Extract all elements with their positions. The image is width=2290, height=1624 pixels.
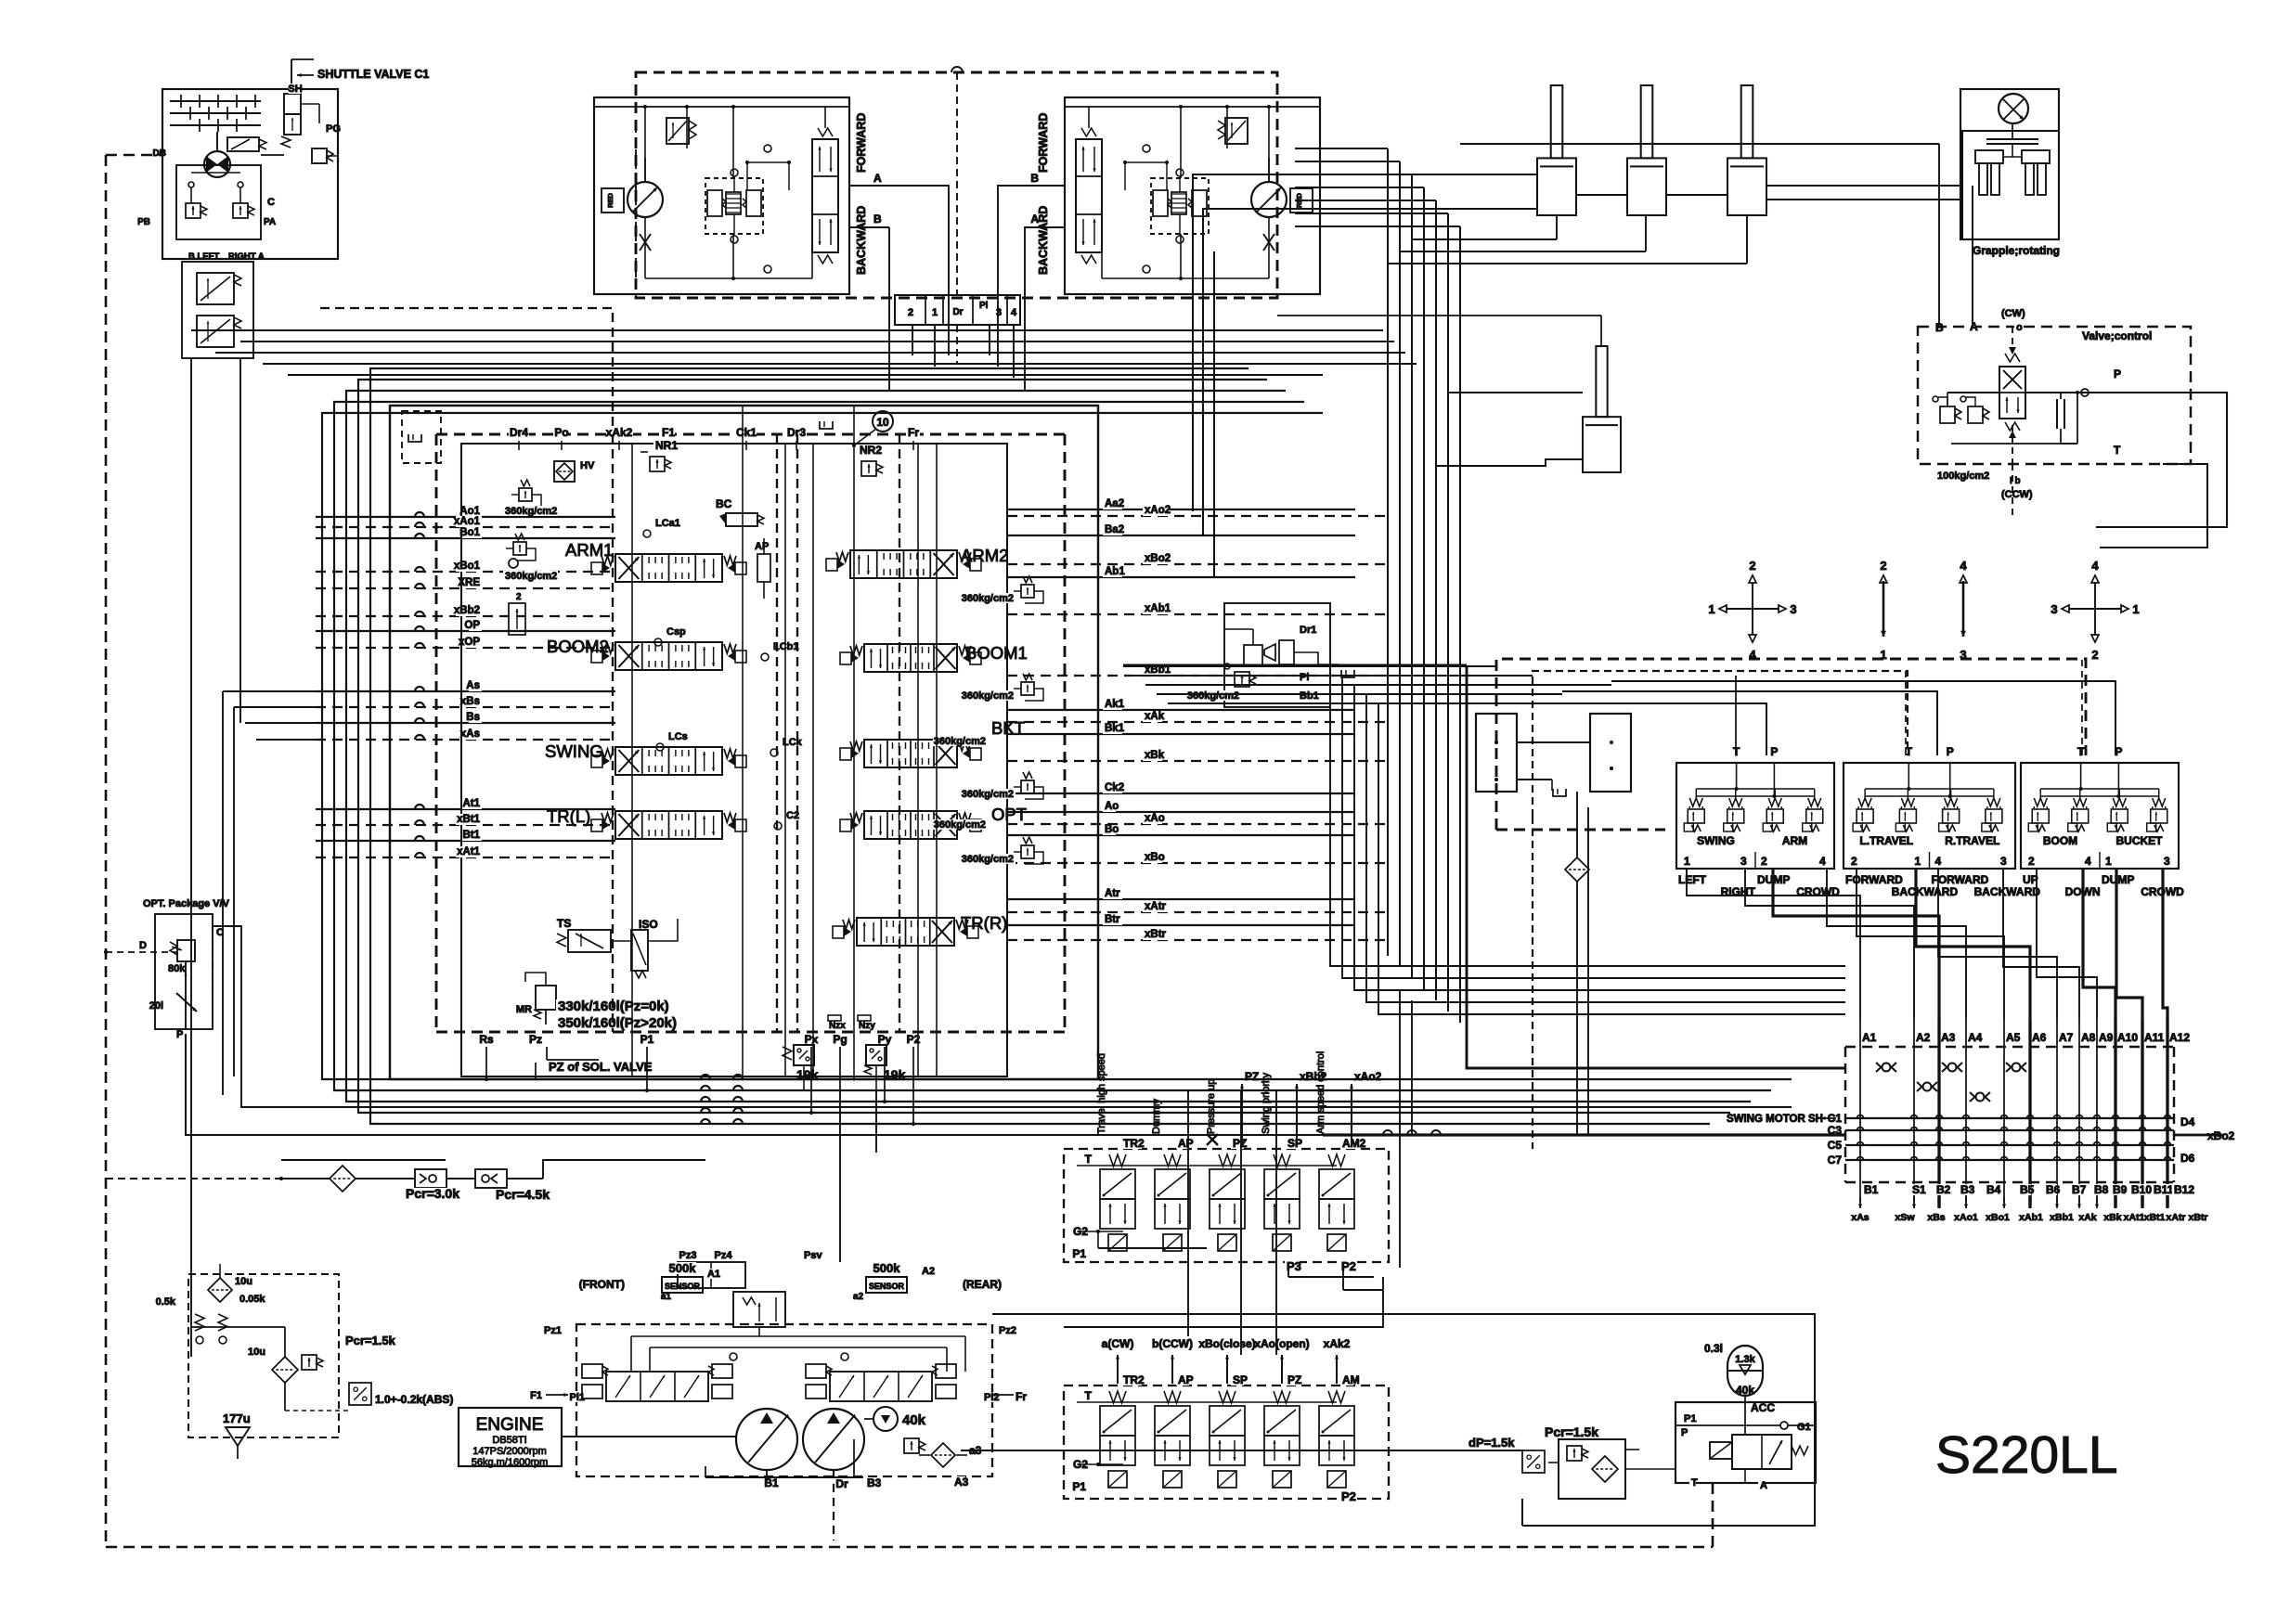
svg-text:Ck1: Ck1	[736, 426, 757, 439]
svg-text:TR2: TR2	[1123, 1373, 1145, 1386]
svg-text:Pz: Pz	[529, 1033, 542, 1046]
svg-text:10u: 10u	[248, 1347, 265, 1358]
svg-text:SP: SP	[1287, 1137, 1302, 1150]
svg-text:Swing priority: Swing priority	[1261, 1072, 1272, 1134]
svg-text:40k: 40k	[902, 1412, 926, 1428]
svg-text:Travel high speed: Travel high speed	[1096, 1053, 1107, 1134]
svg-text:Ck2: Ck2	[1105, 782, 1124, 793]
svg-text:B: B	[1030, 172, 1039, 185]
svg-text:T: T	[2114, 444, 2121, 457]
svg-text:Bo: Bo	[1105, 824, 1119, 835]
svg-text:LCs: LCs	[668, 731, 688, 742]
svg-text:100kg/cm2: 100kg/cm2	[1937, 470, 1989, 482]
svg-text:xAk: xAk	[1145, 711, 1165, 722]
svg-text:Nzy: Nzy	[859, 1021, 875, 1031]
svg-text:80k: 80k	[168, 963, 186, 974]
svg-text:TR2: TR2	[1123, 1137, 1145, 1150]
svg-text:NR1: NR1	[655, 439, 678, 452]
svg-text:S220LL: S220LL	[1935, 1425, 2118, 1485]
svg-text:P1: P1	[1684, 1413, 1696, 1424]
svg-text:500k: 500k	[669, 1261, 697, 1275]
svg-text:xBt1: xBt1	[457, 814, 481, 825]
svg-text:BKT: BKT	[991, 718, 1025, 738]
svg-text:0.05k: 0.05k	[239, 1294, 265, 1305]
svg-text:BACKWARD: BACKWARD	[1892, 885, 1959, 898]
svg-text:A3: A3	[954, 1476, 969, 1489]
svg-text:2: 2	[1749, 559, 1755, 573]
svg-text:Fr: Fr	[1016, 1390, 1027, 1403]
svg-text:OPT. Package V/V: OPT. Package V/V	[143, 898, 230, 909]
svg-text:b(CCW): b(CCW)	[1152, 1337, 1193, 1350]
svg-text:A9: A9	[2099, 1031, 2114, 1044]
svg-text:A1: A1	[1862, 1031, 1877, 1044]
svg-text:147PS/2000rpm: 147PS/2000rpm	[472, 1446, 547, 1457]
svg-text:Py: Py	[878, 1033, 892, 1046]
svg-text:3: 3	[1740, 855, 1747, 868]
svg-text:D6: D6	[2180, 1152, 2195, 1165]
svg-text:Px: Px	[805, 1033, 819, 1046]
svg-text:Pcr=1.5k: Pcr=1.5k	[345, 1334, 396, 1347]
svg-text:PZ: PZ	[1233, 1137, 1247, 1150]
svg-text:360kg/cm2: 360kg/cm2	[934, 736, 986, 747]
svg-text:Pi: Pi	[1300, 672, 1309, 683]
svg-text:T: T	[1691, 1477, 1698, 1489]
svg-text:(CCW): (CCW)	[2001, 489, 2033, 500]
svg-text:4: 4	[1935, 855, 1942, 868]
svg-text:ARM: ARM	[1782, 834, 1807, 847]
svg-text:NR2: NR2	[860, 444, 882, 457]
svg-text:TR(L): TR(L)	[547, 806, 590, 826]
svg-text:360kg/cm2: 360kg/cm2	[1187, 690, 1239, 702]
svg-text:P: P	[1681, 1427, 1688, 1438]
svg-text:360kg/cm2: 360kg/cm2	[962, 854, 1014, 865]
svg-text:Bs: Bs	[466, 712, 480, 723]
svg-text:A: A	[873, 172, 882, 185]
svg-text:C5: C5	[1828, 1139, 1843, 1152]
svg-text:1: 1	[1915, 855, 1921, 868]
svg-text:Dr1: Dr1	[1300, 625, 1316, 636]
svg-text:AM2: AM2	[1342, 1137, 1366, 1150]
svg-text:BOOM2: BOOM2	[547, 637, 609, 656]
svg-text:PZ: PZ	[1287, 1373, 1301, 1386]
svg-text:4: 4	[1960, 559, 1967, 573]
svg-text:500k: 500k	[873, 1261, 901, 1275]
svg-text:PB: PB	[137, 217, 150, 227]
svg-text:3: 3	[996, 307, 1002, 318]
svg-text:Pz3: Pz3	[679, 1250, 697, 1261]
svg-text:Dummy: Dummy	[1151, 1099, 1162, 1134]
svg-text:20l: 20l	[149, 1000, 163, 1012]
svg-text:FORWARD: FORWARD	[1037, 113, 1050, 173]
svg-text:SENSOR: SENSOR	[665, 1282, 701, 1291]
svg-text:B12: B12	[2174, 1183, 2194, 1196]
svg-text:A: A	[1760, 1480, 1767, 1491]
svg-text:AP: AP	[1178, 1373, 1194, 1386]
svg-text:P: P	[2114, 367, 2121, 380]
svg-text:DB: DB	[153, 148, 166, 159]
svg-text:a(CW): a(CW)	[1102, 1337, 1134, 1350]
svg-text:2: 2	[908, 307, 913, 318]
svg-text:Fr: Fr	[908, 426, 919, 439]
svg-text:1: 1	[1708, 602, 1714, 616]
svg-text:xAtr: xAtr	[2166, 1212, 2185, 1223]
svg-text:Pcr=1.5k: Pcr=1.5k	[1545, 1424, 1598, 1439]
svg-text:T: T	[1085, 1389, 1093, 1402]
svg-text:xAt1: xAt1	[457, 846, 481, 857]
svg-text:BACKWARD: BACKWARD	[1974, 885, 2041, 898]
svg-text:3: 3	[1790, 602, 1796, 616]
svg-text:SENSOR: SENSOR	[869, 1282, 905, 1291]
svg-text:Bb1: Bb1	[1300, 690, 1319, 702]
svg-text:P: P	[1770, 745, 1778, 758]
svg-text:A4: A4	[1968, 1031, 1983, 1044]
svg-text:LEFT: LEFT	[1678, 873, 1707, 886]
svg-text:B7: B7	[2072, 1183, 2087, 1196]
svg-text:BACKWARD: BACKWARD	[1037, 206, 1050, 275]
svg-text:56kg.m/1600rpm: 56kg.m/1600rpm	[472, 1457, 549, 1468]
svg-text:xBk: xBk	[2103, 1212, 2121, 1223]
svg-text:Pz1: Pz1	[544, 1325, 562, 1336]
svg-text:C7: C7	[1828, 1154, 1843, 1166]
svg-text:F1: F1	[530, 1390, 542, 1401]
svg-text:ACC: ACC	[1751, 1401, 1775, 1414]
svg-text:xBo1: xBo1	[1986, 1212, 2010, 1223]
svg-text:xAk: xAk	[2078, 1212, 2096, 1223]
svg-text:P1: P1	[1072, 1480, 1086, 1493]
svg-text:A: A	[1030, 213, 1039, 226]
svg-text:1.3k: 1.3k	[1735, 1354, 1755, 1365]
svg-text:B8: B8	[2094, 1183, 2109, 1196]
svg-text:Aa2: Aa2	[1105, 498, 1124, 509]
svg-text:BUCKET: BUCKET	[2116, 834, 2164, 847]
svg-text:SWING: SWING	[545, 741, 603, 761]
svg-text:C: C	[267, 197, 275, 208]
svg-text:B5: B5	[2020, 1183, 2035, 1196]
svg-text:40k: 40k	[1736, 1384, 1754, 1397]
svg-text:DB58TI: DB58TI	[492, 1435, 526, 1446]
svg-text:Psv: Psv	[804, 1250, 822, 1261]
svg-text:Pi: Pi	[979, 301, 989, 311]
svg-text:B9: B9	[2113, 1183, 2128, 1196]
svg-text:Valve;control: Valve;control	[2082, 329, 2152, 342]
svg-text:R.TRAVEL: R.TRAVEL	[1945, 834, 1999, 847]
svg-text:360kg/cm2: 360kg/cm2	[962, 690, 1014, 702]
svg-text:Atr: Atr	[1105, 888, 1120, 899]
svg-text:Pz2: Pz2	[999, 1325, 1016, 1336]
svg-text:3: 3	[2051, 602, 2057, 616]
svg-text:RED: RED	[606, 193, 615, 208]
svg-text:B10: B10	[2131, 1183, 2152, 1196]
svg-text:B: B	[873, 213, 882, 226]
svg-text:2: 2	[2028, 855, 2035, 868]
svg-text:A6: A6	[2032, 1031, 2047, 1044]
svg-text:xOP: xOP	[459, 637, 480, 648]
svg-text:Nzx: Nzx	[829, 1021, 846, 1031]
svg-text:xBo1: xBo1	[454, 561, 481, 572]
svg-text:1: 1	[932, 307, 938, 318]
svg-text:360kg/cm2: 360kg/cm2	[505, 571, 557, 582]
svg-text:xBs: xBs	[460, 696, 480, 707]
svg-text:AM: AM	[1342, 1373, 1360, 1386]
svg-text:F1: F1	[662, 426, 675, 439]
svg-text:xBk: xBk	[1145, 750, 1165, 761]
svg-text:SH: SH	[288, 84, 302, 95]
svg-text:2: 2	[1851, 855, 1857, 868]
svg-text:(CW): (CW)	[2001, 308, 2025, 319]
svg-text:OPT: OPT	[991, 805, 1027, 824]
svg-text:4: 4	[1011, 307, 1017, 318]
svg-text:Grapple;rotating: Grapple;rotating	[1973, 244, 2060, 257]
svg-text:19k: 19k	[884, 1067, 906, 1082]
svg-text:xAk2: xAk2	[606, 426, 633, 439]
svg-text:A: A	[1970, 320, 1978, 333]
svg-text:AP: AP	[755, 541, 769, 552]
svg-text:P: P	[1947, 745, 1954, 758]
svg-text:Ak1: Ak1	[1105, 699, 1125, 710]
svg-text:Pz4: Pz4	[715, 1250, 733, 1261]
svg-text:Bo1: Bo1	[459, 527, 480, 538]
svg-text:FORWARD: FORWARD	[1845, 873, 1903, 886]
svg-text:B1: B1	[1864, 1183, 1879, 1196]
svg-text:4: 4	[2085, 855, 2091, 868]
svg-text:(FRONT): (FRONT)	[579, 1278, 625, 1291]
svg-text:177u: 177u	[223, 1411, 251, 1425]
svg-text:xBs: xBs	[1927, 1212, 1945, 1223]
svg-text:MR: MR	[516, 1004, 532, 1015]
svg-text:Ab1: Ab1	[1105, 566, 1125, 577]
svg-text:xAs: xAs	[460, 728, 480, 740]
svg-text:2: 2	[516, 592, 522, 602]
svg-text:Ao: Ao	[1105, 801, 1119, 812]
svg-text:OP: OP	[464, 620, 480, 631]
svg-text:BC: BC	[716, 497, 732, 510]
svg-text:A11: A11	[2144, 1031, 2165, 1044]
svg-text:Pcr=3.0k: Pcr=3.0k	[406, 1186, 459, 1201]
svg-text:360kg/cm2: 360kg/cm2	[962, 593, 1014, 604]
svg-text:BACKWARD: BACKWARD	[855, 206, 868, 275]
svg-text:B11: B11	[2154, 1183, 2174, 1196]
svg-text:0.5k: 0.5k	[156, 1296, 176, 1308]
svg-text:Btr: Btr	[1105, 914, 1120, 925]
svg-text:1: 1	[1684, 855, 1690, 868]
svg-text:Dr4: Dr4	[510, 426, 528, 439]
svg-text:(REAR): (REAR)	[963, 1278, 1002, 1291]
svg-text:xAb1: xAb1	[2019, 1212, 2043, 1223]
svg-text:xAo2: xAo2	[1354, 1070, 1382, 1083]
svg-text:2: 2	[2091, 648, 2098, 662]
svg-text:360kg/cm2: 360kg/cm2	[934, 819, 986, 831]
svg-text:0.3l: 0.3l	[1704, 1342, 1723, 1355]
svg-text:A12: A12	[2169, 1031, 2190, 1044]
svg-text:B2: B2	[1936, 1183, 1951, 1196]
svg-text:ISO: ISO	[639, 918, 658, 931]
svg-text:LCa1: LCa1	[655, 518, 680, 529]
svg-text:A8: A8	[2081, 1031, 2096, 1044]
svg-text:dP=1.5k: dP=1.5k	[1468, 1436, 1515, 1450]
svg-text:I b: I b	[2010, 476, 2021, 486]
svg-text:B3: B3	[1960, 1183, 1975, 1196]
svg-text:TS: TS	[557, 917, 571, 930]
svg-text:P2: P2	[1341, 1489, 1356, 1503]
svg-text:4: 4	[2091, 559, 2099, 573]
svg-text:B LEFT: B LEFT	[188, 251, 219, 262]
svg-text:A1: A1	[707, 1269, 720, 1280]
svg-text:Csp: Csp	[666, 626, 686, 638]
svg-text:BOOM: BOOM	[2043, 834, 2077, 847]
svg-text:xBb2: xBb2	[1300, 1070, 1327, 1083]
svg-text:SHUTTLE VALVE C1: SHUTTLE VALVE C1	[317, 68, 429, 81]
svg-text:Bk1: Bk1	[1105, 723, 1125, 734]
svg-text:3: 3	[2000, 855, 2007, 868]
svg-text:4: 4	[1819, 855, 1826, 868]
svg-text:xBt1: xBt1	[2144, 1212, 2166, 1223]
svg-text:ENGINE: ENGINE	[476, 1415, 544, 1435]
svg-text:xAo: xAo	[1145, 813, 1165, 824]
svg-text:xBb1: xBb1	[2050, 1212, 2074, 1223]
svg-text:2: 2	[1761, 855, 1767, 868]
svg-text:FORWARD: FORWARD	[855, 113, 868, 173]
svg-text:SP: SP	[1233, 1373, 1248, 1386]
svg-text:Ba2: Ba2	[1105, 524, 1124, 535]
svg-text:D: D	[139, 940, 147, 951]
svg-text:Pi2: Pi2	[984, 1392, 1000, 1403]
svg-text:A7: A7	[2059, 1031, 2074, 1044]
svg-text:xAt1: xAt1	[2124, 1212, 2145, 1223]
svg-text:A3: A3	[1941, 1031, 1956, 1044]
svg-text:Dr: Dr	[835, 1477, 848, 1490]
svg-text:10u: 10u	[235, 1276, 252, 1287]
svg-text:B3: B3	[867, 1476, 882, 1489]
svg-text:xAtr: xAtr	[1145, 901, 1167, 912]
svg-text:xBo2: xBo2	[1145, 553, 1171, 564]
svg-text:T: T	[1085, 1153, 1093, 1166]
svg-text:xAo(open): xAo(open)	[1254, 1337, 1309, 1350]
svg-text:360kg/cm2: 360kg/cm2	[505, 506, 557, 517]
svg-text:S1: S1	[1912, 1183, 1926, 1196]
svg-text:Pg: Pg	[833, 1033, 847, 1046]
svg-text:xBo: xBo	[1145, 852, 1165, 863]
svg-text:T: T	[2077, 745, 2085, 758]
svg-text:xBtr: xBtr	[2188, 1212, 2207, 1223]
svg-text:XRE: XRE	[458, 577, 480, 588]
svg-text:G1: G1	[1797, 1422, 1811, 1433]
svg-text:RIGHT A: RIGHT A	[228, 251, 265, 262]
svg-text:2: 2	[1880, 559, 1886, 573]
svg-text:D4: D4	[2180, 1115, 2195, 1128]
svg-text:Bt1: Bt1	[462, 830, 480, 841]
svg-text:At1: At1	[462, 798, 480, 809]
svg-text:B6: B6	[2046, 1183, 2061, 1196]
svg-text:1.0+-0.2k(ABS): 1.0+-0.2k(ABS)	[375, 1393, 453, 1406]
svg-text:PZ of SOL. VALVE: PZ of SOL. VALVE	[549, 1060, 653, 1074]
svg-text:SWING MOTOR SH: SWING MOTOR SH	[1727, 1114, 1823, 1125]
svg-text:P1: P1	[1072, 1247, 1086, 1260]
svg-text:360kg/cm2: 360kg/cm2	[962, 789, 1014, 800]
svg-text:SWING: SWING	[1697, 834, 1735, 847]
svg-text:350k/160l(Pz>20k): 350k/160l(Pz>20k)	[558, 1015, 677, 1031]
svg-text:xBb2: xBb2	[454, 605, 480, 616]
svg-text:AP: AP	[1178, 1137, 1194, 1150]
svg-text:Rs: Rs	[479, 1033, 494, 1046]
svg-text:Pressure up: Pressure up	[1206, 1079, 1217, 1134]
svg-text:PA: PA	[264, 217, 276, 227]
svg-text:xAk2: xAk2	[1324, 1337, 1351, 1350]
svg-text:P1: P1	[640, 1033, 654, 1046]
svg-text:xAb1: xAb1	[1145, 603, 1171, 614]
svg-text:A5: A5	[2006, 1031, 2021, 1044]
svg-text:10: 10	[876, 416, 889, 429]
svg-text:Dr: Dr	[952, 307, 963, 317]
svg-text:xAs: xAs	[1851, 1212, 1869, 1223]
svg-text:Po: Po	[554, 426, 568, 439]
svg-text:HV: HV	[580, 460, 595, 471]
svg-text:A2: A2	[1916, 1031, 1931, 1044]
svg-text:B4: B4	[1986, 1183, 2001, 1196]
svg-text:xAo1: xAo1	[1954, 1212, 1978, 1223]
svg-text:xAo2: xAo2	[1145, 505, 1171, 516]
svg-text:A10: A10	[2117, 1031, 2138, 1044]
svg-text:3: 3	[2164, 855, 2170, 868]
svg-text:A2: A2	[922, 1266, 935, 1277]
svg-text:xBtr: xBtr	[1145, 929, 1167, 940]
svg-text:PZ: PZ	[1245, 1070, 1259, 1083]
svg-text:Arm speed control: Arm speed control	[1315, 1051, 1326, 1134]
svg-text:FORWARD: FORWARD	[1932, 873, 1989, 886]
svg-text:ARM1: ARM1	[565, 540, 613, 560]
svg-text:L.TRAVEL: L.TRAVEL	[1859, 834, 1913, 847]
svg-text:DUMP: DUMP	[2102, 873, 2134, 886]
svg-text:xBo(close): xBo(close)	[1198, 1337, 1255, 1350]
svg-text:P: P	[176, 1029, 183, 1040]
svg-text:19k: 19k	[796, 1067, 819, 1082]
svg-text:xSw: xSw	[1895, 1212, 1915, 1223]
svg-text:xAo1: xAo1	[454, 516, 481, 527]
svg-text:1: 1	[2105, 855, 2112, 868]
svg-text:1: 1	[2132, 602, 2139, 616]
svg-text:a2: a2	[853, 1292, 864, 1302]
svg-text:As: As	[466, 680, 480, 691]
svg-text:T: T	[1733, 745, 1740, 758]
svg-text:Pcr=4.5k: Pcr=4.5k	[496, 1187, 550, 1202]
svg-text:o: o	[2016, 322, 2023, 333]
